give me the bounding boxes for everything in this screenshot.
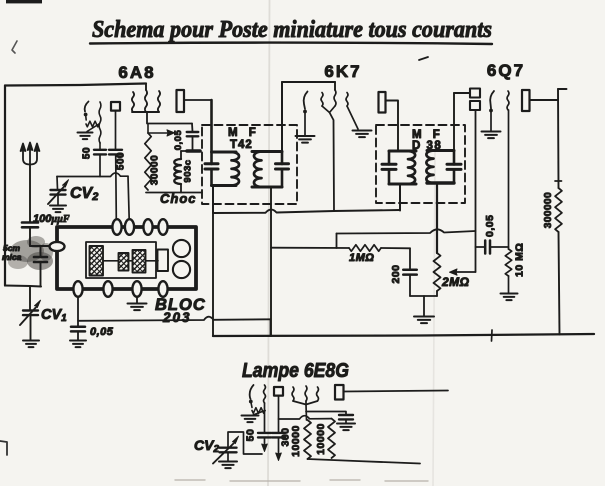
ground 6E8G right	[337, 423, 355, 425]
D38 primary bottom bar	[389, 183, 416, 186]
capacitor 5cm mica	[34, 256, 47, 259]
wire pin3 ground	[136, 297, 138, 304]
wire top rail	[5, 84, 146, 86]
capacitor 6E8G right	[339, 414, 353, 416]
junction bar under 0.05	[187, 149, 200, 153]
scan artifact pencil mark left	[12, 41, 17, 53]
BLOC link wires	[103, 260, 118, 262]
resistor 10000 a	[304, 420, 311, 459]
svg-text:203: 203	[162, 310, 192, 325]
6Q7 plate top-cap	[522, 90, 530, 111]
capacitor 500	[109, 149, 122, 151]
6E8G grid squiggle a	[292, 387, 294, 401]
variable capacitor CV2	[56, 177, 59, 190]
6A8 tube bottom bar	[132, 111, 159, 113]
wire 100uuF to node	[29, 227, 31, 246]
ground osc grid	[78, 132, 93, 134]
wire 1M line	[271, 247, 349, 249]
6Q7 grid squiggle	[507, 91, 509, 110]
T42 secondary bottom bar	[252, 186, 282, 189]
BLOC pin top2	[125, 219, 134, 235]
wire node to BLOC left pin	[30, 245, 51, 247]
capacitor T42 primary	[205, 162, 218, 165]
svg-text:30000: 30000	[150, 155, 161, 185]
BLOC pin bottom1	[73, 281, 82, 297]
ground detector	[414, 316, 434, 318]
wire left border	[4, 86, 6, 286]
scan artifact bottom dashes	[175, 480, 428, 481]
svg-text:10000: 10000	[315, 423, 327, 455]
ground 10M	[501, 293, 518, 295]
6E8G grid vee	[293, 401, 318, 405]
6Q7 cathode electrode	[490, 91, 494, 109]
svg-text:903c: 903c	[183, 159, 194, 182]
capacitor T42 secondary	[276, 162, 289, 165]
6K7 cathode electrode	[304, 92, 308, 110]
capacitor 300	[272, 432, 285, 434]
svg-text:500: 500	[116, 152, 127, 170]
wire square down	[115, 111, 117, 150]
svg-text:Choc: Choc	[160, 191, 197, 206]
capacitor 0.05 bottom	[71, 326, 85, 329]
6Q7 diode plate 1	[470, 89, 480, 98]
T42 primary top bar	[212, 151, 237, 154]
6A8 grid squiggle right	[158, 91, 160, 112]
BLOC pin top3	[143, 219, 152, 235]
wire resistors bottom	[308, 459, 421, 464]
wire T42 primary cap down	[210, 169, 213, 186]
D38 secondary top bar	[427, 149, 454, 152]
wire heater line	[279, 416, 332, 419]
BLOC pin bottom4	[158, 281, 167, 297]
6K7 grid squiggle right	[334, 82, 336, 90]
wire 6Q7 diode top	[454, 92, 470, 94]
resistor 30000	[145, 133, 151, 190]
wire 50 down	[99, 154, 101, 176]
wire 6K7 cathode down	[304, 112, 306, 136]
svg-text:0,05: 0,05	[484, 215, 496, 237]
MF T42 dashed box	[202, 125, 297, 204]
wire 50 arrow	[264, 437, 266, 445]
wire 6Q7 grid line	[337, 229, 476, 233]
wire pin1 down	[77, 297, 79, 327]
title underline	[90, 43, 492, 44]
BLOC trimmer rect	[158, 250, 169, 272]
6A8 signal grid squiggle	[99, 102, 101, 143]
ground CV1	[23, 340, 39, 342]
6E8G grid squiggle b	[305, 386, 307, 401]
capacitor 100uuF	[22, 221, 38, 224]
wire stem corner down	[191, 124, 194, 132]
choke 903c	[181, 150, 187, 152]
6K7 plate top-cap	[379, 92, 386, 113]
wire stem branch right	[306, 412, 346, 415]
wire T42 primary to B+	[212, 186, 214, 214]
resistor osc grid leak	[85, 115, 88, 121]
svg-text:10000: 10000	[290, 425, 302, 457]
svg-text:mica: mica	[2, 252, 22, 262]
resistor 300000	[555, 188, 562, 232]
ground 6K7 cathode	[296, 135, 315, 137]
scan artifact small dash near 6Q7	[419, 57, 428, 60]
svg-text:10 MΩ: 10 MΩ	[514, 243, 526, 277]
6E8G grid cap square	[274, 387, 283, 396]
wire 6A8 stem	[147, 112, 192, 124]
svg-text:Lampe 6E8G: Lampe 6E8G	[242, 360, 349, 382]
svg-text:300000: 300000	[543, 192, 554, 228]
svg-text:CV2: CV2	[194, 437, 219, 455]
wire plate load column	[557, 89, 560, 188]
variable capacitor CV1	[29, 286, 31, 310]
6E8G grid squiggle c	[317, 387, 319, 401]
svg-text:CV1: CV1	[41, 307, 67, 324]
svg-text:200: 200	[390, 264, 402, 283]
capacitor 50 bottom	[258, 432, 271, 434]
ground 0.05 bottom	[70, 340, 86, 342]
6A8 plate top-cap	[177, 90, 185, 112]
wire 1M to 200 node	[381, 247, 410, 249]
wire D38 primary to B+	[399, 184, 401, 211]
wire det ground stem	[423, 296, 425, 316]
wire antenna stem	[29, 164, 31, 222]
wire D38 sec to 6Q7	[453, 93, 455, 151]
wire 6Q7 plate	[530, 99, 559, 101]
MF D38 dashed box	[376, 125, 465, 203]
ground 6E8G osc grid	[242, 415, 259, 417]
6A8 osc grid electrode	[85, 102, 89, 112]
ground CV2	[50, 205, 66, 207]
wire top stub	[558, 88, 567, 90]
wire 6E8G stem	[305, 405, 308, 421]
scan artifact top edge smear	[6, 0, 42, 3]
coil D38 secondary	[426, 151, 433, 184]
svg-text:T42: T42	[230, 139, 253, 151]
BLOC coil section 1	[90, 246, 104, 276]
wire left border bottom	[5, 286, 41, 287]
BLOC coil section 3	[133, 250, 146, 273]
BLOC inner box	[86, 242, 156, 278]
resistor 10M	[505, 249, 511, 276]
ground BLOC pin3	[128, 303, 147, 305]
ground CV2 bottom	[219, 461, 237, 463]
wire 200/2M bottom	[410, 295, 437, 297]
wire 6K7 stem	[330, 113, 335, 212]
wire 6K7 plate to D38	[386, 101, 399, 152]
wire 300 arrow	[278, 437, 280, 454]
BLOC 203 box	[57, 227, 196, 289]
wire 300000 to bus	[559, 232, 560, 335]
coil T42 primary	[232, 152, 240, 186]
6E8G squiggle 1	[264, 385, 266, 403]
wire square col	[278, 396, 280, 433]
wire 6Q7 cathode	[490, 111, 492, 132]
ground 6Q7 cathode	[482, 131, 501, 133]
ground 6K7 suppressor	[353, 130, 372, 132]
wire diode column	[475, 111, 477, 273]
D38 secondary bottom bar	[427, 181, 454, 184]
svg-text:100µµF: 100µµF	[33, 213, 70, 225]
wire AVC line	[78, 317, 271, 321]
resistor 6E8G grid leak	[251, 402, 252, 408]
wire step to grid line	[336, 234, 338, 249]
wire 6K7 suppressor	[347, 106, 358, 129]
svg-text:6K7: 6K7	[324, 62, 361, 81]
wire B+ horizontal	[213, 210, 400, 213]
wire choc bottom	[146, 192, 202, 194]
wire bottom bus	[213, 334, 594, 336]
6E8G osc grid electrode	[250, 385, 254, 399]
resistor 1M	[349, 245, 381, 251]
wire 6A8 plate to T42	[184, 99, 212, 101]
wire arrow to 2M	[456, 271, 476, 273]
6Q7 diode plate 2	[470, 101, 480, 110]
capacitor 50	[99, 143, 101, 150]
svg-text:50: 50	[245, 429, 257, 442]
scan artifact crease line right	[433, 150, 435, 486]
6A8 grid squiggle mid	[145, 84, 147, 91]
resistor 10000 b	[328, 419, 335, 458]
scan artifact crease line center	[268, 0, 270, 486]
svg-text:1MΩ: 1MΩ	[349, 252, 374, 264]
BLOC coil section 2	[119, 253, 129, 271]
resistor 2M	[434, 253, 441, 291]
BLOC pin bottom2	[103, 281, 112, 297]
BLOC pin bottom3	[132, 281, 141, 297]
junction tick bus	[491, 330, 494, 341]
wire T42 secondary to 6K7 grid	[281, 82, 283, 152]
wire 2M to bottom	[436, 291, 438, 296]
wire 10M to ground	[508, 276, 510, 293]
capacitor 200	[409, 248, 411, 269]
BLOC pin top4	[158, 219, 167, 235]
svg-text:2MΩ: 2MΩ	[441, 275, 470, 289]
6A8 grid squiggle left	[132, 92, 134, 112]
BLOC circle bottom	[173, 261, 190, 278]
wire D38 secondary down to 2M	[436, 183, 438, 253]
6K7 grid squiggle left	[321, 93, 323, 107]
svg-text:Schema pour Poste miniature to: Schema pour Poste miniature tous courant…	[92, 17, 492, 43]
wire 500 to BLOC pin1	[115, 154, 118, 219]
svg-text:50: 50	[82, 147, 93, 159]
6K7 grid vee	[322, 106, 335, 113]
wire AVC step down	[270, 319, 272, 336]
wire T42 column to bus	[212, 213, 214, 336]
wire T42 secondary return	[270, 187, 272, 336]
wire 6Q7 grid down	[508, 110, 510, 249]
wire T42 primary feed	[210, 100, 213, 164]
wire 0.05 to bar	[192, 136, 194, 149]
6E8G plate top-cap	[335, 385, 344, 400]
wire 6K7 grid rail	[282, 81, 335, 83]
wire corner to BLOC pin2	[128, 176, 129, 219]
wire CV2 node horizontal	[57, 173, 128, 177]
T42 primary bottom bar	[212, 184, 237, 187]
scan artifact bottom-left mark	[0, 441, 7, 455]
scan artifact smudge behind mica	[8, 236, 53, 270]
6K7 suppressor squiggle	[346, 93, 348, 107]
capacitor D38 primary	[382, 163, 396, 166]
D38 primary top bar	[389, 150, 416, 153]
wire 0.05 to ground	[77, 331, 79, 340]
wire CV2 bottom link	[228, 432, 262, 454]
BLOC pin top1	[112, 219, 121, 235]
capacitor 0.05 coupling	[476, 246, 486, 248]
T42 secondary top bar	[252, 150, 282, 153]
wire 6E8G plate	[344, 391, 449, 392]
wire cap to ground	[345, 419, 347, 423]
wire arrow into choc	[148, 132, 168, 134]
svg-text:6Q7: 6Q7	[487, 61, 525, 80]
wire to 50 cap	[264, 403, 266, 433]
wire T42 sec cap links	[281, 152, 284, 165]
svg-text:6A8: 6A8	[118, 63, 155, 82]
coil T42 secondary	[254, 152, 262, 188]
BLOC circle top	[173, 240, 190, 257]
coil D38 primary	[408, 151, 415, 184]
6A8 grid cap square	[111, 102, 120, 111]
antenna	[21, 143, 40, 165]
junction tick 300000	[555, 180, 562, 182]
capacitor 0.05 osc	[187, 131, 199, 133]
svg-text:0,05: 0,05	[90, 326, 114, 338]
variable capacitor CV2 bottom	[220, 447, 237, 449]
svg-text:CV2: CV2	[70, 185, 98, 203]
capacitor D38 secondary	[447, 163, 461, 166]
svg-text:M F: M F	[228, 127, 260, 139]
BLOC pin left	[50, 242, 65, 251]
